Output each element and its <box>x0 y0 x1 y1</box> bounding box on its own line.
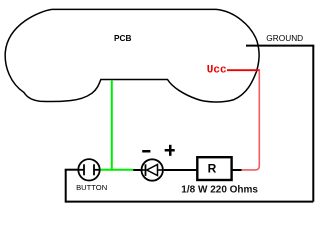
wire LED to resistor <box>164 169 197 171</box>
svg-text:BUTTON: BUTTON <box>76 183 107 192</box>
PCB blob outline <box>5 9 259 102</box>
wire left vertical <box>65 170 67 203</box>
button S1 <box>78 159 101 180</box>
value label 1/8 W 220 Ohms <box>181 185 258 196</box>
LED plus label <box>165 145 175 156</box>
resistor R <box>197 157 231 180</box>
wire ground right vertical <box>312 46 314 202</box>
wire Vcc red horizontal <box>227 69 260 71</box>
wire green vertical from PCB <box>111 80 113 171</box>
LED D1 <box>141 159 164 180</box>
label PCB <box>114 33 132 43</box>
wire green from button to junction <box>101 169 134 171</box>
svg-text:Ucc: Ucc <box>207 64 227 76</box>
label GROUND <box>266 33 303 43</box>
svg-text:1/8 W 220 Ohms: 1/8 W 220 Ohms <box>181 185 258 196</box>
node Vcc label <box>207 64 227 76</box>
svg-text:PCB: PCB <box>114 33 132 43</box>
wire to button <box>65 169 78 171</box>
wire resistor right stub <box>232 169 242 171</box>
label BUTTON <box>76 183 107 192</box>
wire ground top horizontal <box>246 45 314 47</box>
wire ground bottom horizontal <box>66 201 314 203</box>
svg-text:R: R <box>208 162 217 176</box>
wire black junction to LED <box>133 169 141 171</box>
svg-text:GROUND: GROUND <box>266 33 303 43</box>
wire Vcc red vertical down to resistor <box>241 70 259 170</box>
LED minus label <box>142 150 150 153</box>
